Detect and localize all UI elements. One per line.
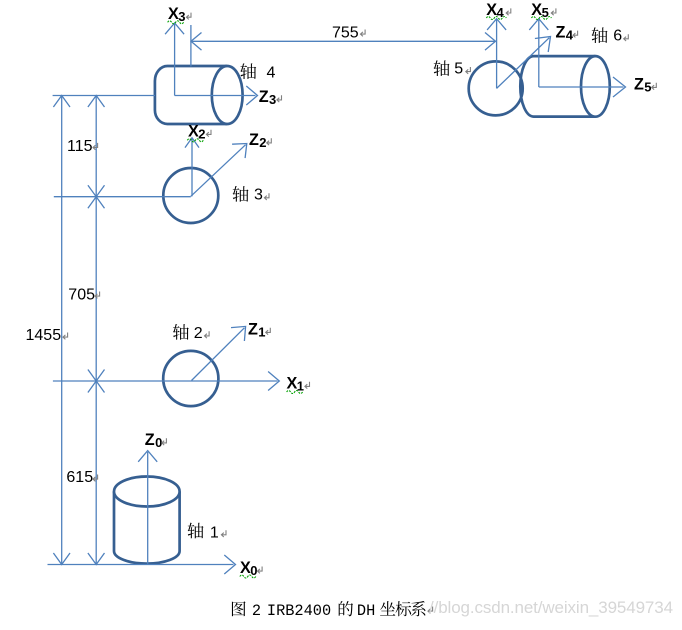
label 轴 5: [434, 60, 450, 76]
arrowhead Z3: [246, 86, 257, 105]
svg-text:3: 3: [254, 187, 263, 204]
extension line level y=196.7 (to joint3 center): [54, 196, 191, 198]
extension line left of 755 dim: [190, 25, 192, 67]
svg-text:5: 5: [644, 80, 651, 95]
cylinder joint 轴4 (horizontal can): [155, 66, 243, 124]
dimension chain line 115/705/615 (vertical): [95, 96, 97, 565]
label 轴 1: [188, 523, 204, 539]
label 轴 4: [240, 63, 256, 79]
dimension line 1455 (vertical double arrow): [61, 96, 63, 565]
axis Z0 arrow: [147, 452, 149, 565]
svg-text:Z: Z: [556, 23, 566, 41]
svg-text:1: 1: [258, 325, 265, 340]
svg-text:1: 1: [210, 524, 219, 541]
svg-text:4: 4: [497, 5, 505, 20]
axis Z5 arrow: [539, 86, 624, 88]
arrowhead X0: [224, 555, 235, 574]
svg-text:DH: DH: [357, 602, 375, 620]
svg-text:IRB2400: IRB2400: [267, 602, 331, 620]
svg-text:115: 115: [67, 138, 93, 155]
svg-text:3: 3: [269, 92, 276, 107]
axis X2 arrow: [191, 139, 193, 196]
extension line level y=381 / axis X1 line: [53, 380, 278, 382]
svg-text:Z: Z: [145, 431, 155, 449]
svg-text:2: 2: [252, 602, 261, 620]
svg-text:2: 2: [194, 325, 203, 342]
svg-text:615: 615: [66, 469, 93, 486]
svg-text:2: 2: [198, 127, 205, 142]
axis Z1 arrow (diagonal): [192, 328, 245, 381]
cylinder joint 轴6 (horizontal can): [520, 56, 610, 117]
svg-text:4: 4: [566, 27, 574, 42]
axis Z4 arrow (diagonal): [497, 38, 550, 89]
cylinder joint 轴1 (vertical can): [114, 477, 180, 564]
svg-text:2: 2: [259, 135, 266, 150]
base line y=564.5 / axis X0 line: [48, 564, 234, 566]
svg-text:705: 705: [68, 287, 95, 304]
svg-text:Z: Z: [259, 88, 269, 106]
arrowhead X1: [268, 372, 279, 391]
extension tick line level y=95.5: [53, 95, 155, 97]
chain arrows at y=196.7: [88, 185, 105, 197]
svg-text:0: 0: [155, 435, 162, 450]
label 轴 3: [233, 186, 249, 202]
svg-text:3: 3: [178, 9, 185, 24]
svg-text:1455: 1455: [26, 327, 62, 344]
svg-text:Z: Z: [249, 131, 259, 149]
axis X3 arrow: [174, 24, 176, 96]
svg-text:755: 755: [332, 25, 359, 42]
axis X5 arrow: [538, 20, 540, 87]
axis Z3 line: [175, 95, 256, 97]
circle joint 轴2: [163, 351, 218, 406]
svg-text://blog.csdn.net/weixin_3954973: //blog.csdn.net/weixin_39549734: [429, 598, 673, 617]
svg-text:6: 6: [613, 28, 622, 45]
axis Z2 arrow (diagonal): [191, 145, 246, 197]
caption 图 2 IRB2400 的 DH 坐标系: [232, 601, 246, 616]
chain arrows at y=381: [88, 370, 105, 382]
circle joint 轴5: [469, 61, 523, 115]
svg-text:5: 5: [454, 61, 463, 78]
circle joint 轴3: [163, 168, 218, 223]
dimension line 755 (horizontal double arrow): [191, 40, 496, 42]
svg-text:Z: Z: [634, 76, 644, 94]
svg-text:Z: Z: [248, 321, 258, 339]
axis X4 arrow: [496, 20, 498, 88]
svg-text:0: 0: [250, 563, 257, 578]
label 轴 6: [592, 27, 608, 43]
label 轴 2: [173, 324, 189, 340]
svg-text:4: 4: [267, 64, 276, 81]
